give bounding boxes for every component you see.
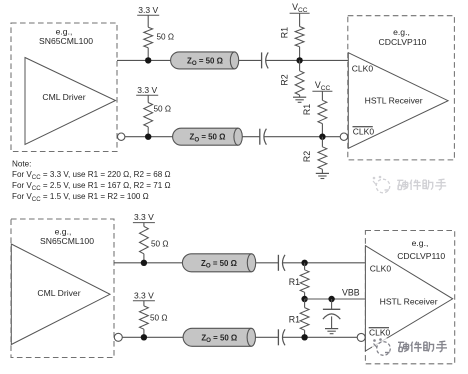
svg-text:CDCLVP110: CDCLVP110 [397, 251, 445, 261]
wire: Z3 to C3 [256, 262, 279, 264]
svg-text:3.3 V: 3.3 V [134, 212, 154, 222]
transmission line Z1 ZO = 50 ohm [171, 52, 235, 69]
inversion bubble on U1 OUT- [118, 133, 125, 140]
svg-text:CDCLVP110: CDCLVP110 [379, 37, 427, 47]
inversion bubble on U2 CLK0bar input [340, 133, 347, 140]
bypass capacitor C5 [323, 308, 340, 310]
wire: tap to bypass capacitor C5 [331, 299, 333, 309]
wire: resistor to node J5 [143, 254, 145, 263]
ground #1 [293, 96, 306, 98]
svg-text:CML Driver: CML Driver [37, 288, 80, 298]
node bypass-cap tap dot [328, 296, 334, 302]
wire: J6 to R1 upper [304, 263, 306, 270]
wire: 3.3V rail to R pull-up #1 [147, 15, 149, 27]
wire: C4 to U4 CLK0bar [283, 336, 358, 338]
HSTL receiver triangle U2 [348, 53, 448, 149]
resistor R1 #1 [295, 27, 304, 47]
svg-text:3.3 V: 3.3 V [137, 85, 157, 95]
wire: R1 #2 to node J4 [321, 124, 323, 137]
wire: Z1 to C1 [239, 59, 262, 61]
receiver box U2 (CDCLVP110, top figure) [348, 16, 455, 160]
svg-text:CLK0: CLK0 [370, 263, 392, 273]
wire: rail to pull-up #4 [143, 301, 145, 306]
wire: R1 upper to node VBB [304, 292, 306, 299]
wire: J4 to R2 #2 [321, 137, 323, 147]
wire: Z2 to C2 [242, 136, 259, 138]
wire: U3 OUT+ to Z3 [114, 262, 182, 264]
svg-text:R2: R2 [302, 151, 312, 162]
wire: R2 to ground #1 [299, 95, 301, 97]
node J1 junction dot [145, 57, 151, 63]
node J4 junction dot [319, 134, 325, 140]
CML driver triangle U1 [25, 58, 116, 145]
svg-text:CLK0: CLK0 [353, 126, 375, 136]
wire: R1 lower to node J7 [304, 330, 306, 337]
resistor R2 #2 [318, 147, 327, 170]
svg-text:50 Ω: 50 Ω [150, 313, 168, 322]
node J7 junction dot [301, 334, 307, 340]
capacitor C3 (AC coupling) [277, 255, 279, 271]
receiver box U4 (CDCLVP110, bottom figure) [365, 231, 454, 364]
wire: U1 OUT- to Z2 [125, 136, 173, 138]
svg-text:SN65CML100: SN65CML100 [39, 36, 93, 46]
wire: VBB node to receiver [305, 298, 366, 300]
node J8 junction dot [141, 334, 147, 340]
svg-text:HSTL Receiver: HSTL Receiver [380, 296, 438, 306]
transmission line Z3 ZO = 50 ohm [182, 254, 251, 272]
wire: C1 to U2 CLK0 [266, 59, 348, 61]
wire: R1 to node J2 [299, 47, 301, 61]
resistor R1 (upper, bottom figure) [300, 270, 309, 293]
node J2 junction dot [296, 57, 302, 63]
wire: rail to pull-up #3 [143, 223, 145, 227]
wire: C3 to U4 CLK0 [283, 262, 366, 264]
svg-text:50 Ω: 50 Ω [157, 32, 175, 41]
resistor R1 (lower, bottom figure) [300, 308, 309, 331]
svg-text:R2: R2 [279, 74, 289, 85]
svg-text:R1: R1 [279, 27, 289, 38]
wire: J2 to R2 #1 [299, 60, 301, 70]
svg-text:e.g.,: e.g., [393, 27, 410, 37]
svg-text:R1: R1 [289, 277, 300, 287]
HSTL receiver triangle U4 [365, 246, 452, 351]
wire: VCC to R1 #2 [321, 91, 323, 100]
svg-text:e.g.,: e.g., [412, 238, 429, 248]
node J3 junction dot [145, 134, 151, 140]
wire: U1 OUT+ to Z1 (top line) [117, 59, 171, 61]
svg-text:HSTL Receiver: HSTL Receiver [365, 95, 423, 105]
wire: 3.3V rail to pull-up #2 [147, 95, 149, 102]
inversion bubble on U3 OUT- [114, 333, 122, 341]
wire: resistor to node J1 [147, 48, 149, 61]
svg-text:Note:: Note: [12, 160, 31, 169]
watermark (top, faint) [372, 175, 450, 195]
capacitor C1 (AC coupling) [261, 52, 263, 68]
wire: VCC to R1 #1 [299, 13, 301, 26]
CML driver triangle U3 [11, 244, 110, 345]
node VBB mid junction dot [301, 296, 307, 302]
svg-text:e.g.,: e.g., [56, 27, 73, 37]
node J5 junction dot [141, 260, 147, 266]
resistor 50 ohm pull-up #3 [140, 226, 149, 253]
svg-text:3.3 V: 3.3 V [138, 5, 158, 15]
ground #3 (bypass cap) [325, 328, 338, 330]
wire: VBB node to R1 lower [304, 299, 306, 308]
svg-text:CLK0: CLK0 [352, 64, 374, 74]
driver box U1 (SN65CML100, top figure) [11, 23, 117, 152]
wire: Z4 to C4 [256, 336, 279, 338]
transmission line Z4 ZO = 50 ohm [183, 328, 251, 346]
svg-text:3.3 V: 3.3 V [134, 290, 154, 300]
svg-text:VBB: VBB [342, 287, 360, 297]
capacitor C4 (AC coupling) [277, 329, 279, 345]
svg-text:SN65CML100: SN65CML100 [40, 236, 94, 246]
driver box U3 (SN65CML100, bottom figure) [11, 219, 114, 358]
svg-text:CML Driver: CML Driver [42, 92, 85, 102]
wire: C2 to U2 CLK0bar [264, 136, 340, 138]
resistor 50 ohm pull-up #2 [144, 103, 153, 127]
svg-text:50 Ω: 50 Ω [154, 105, 172, 114]
wire: C5 to ground [331, 316, 333, 328]
svg-text:R1: R1 [289, 314, 300, 324]
wire: R2 #2 to ground [321, 169, 323, 173]
svg-text:50 Ω: 50 Ω [151, 240, 169, 249]
watermark (bottom) [372, 337, 451, 357]
resistor R1 #2 [318, 100, 327, 123]
resistor R2 #1 [295, 71, 304, 95]
wire: resistor to node J8 [143, 329, 145, 337]
svg-text:CLK0: CLK0 [369, 327, 391, 337]
wire: U3 OUT- to Z4 [122, 336, 183, 338]
capacitor C2 (AC coupling) [259, 129, 261, 145]
ground #2 [316, 172, 329, 174]
wire: resistor to node J3 [147, 127, 149, 137]
node J6 junction dot [301, 260, 307, 266]
inversion bubble on U4 CLK0bar input [357, 333, 365, 341]
resistor 50 ohm pull-up #1 [144, 27, 153, 48]
svg-text:R1: R1 [302, 104, 312, 115]
resistor 50 ohm pull-up #4 [140, 306, 149, 329]
transmission line Z2 ZO = 50 ohm [173, 128, 239, 145]
